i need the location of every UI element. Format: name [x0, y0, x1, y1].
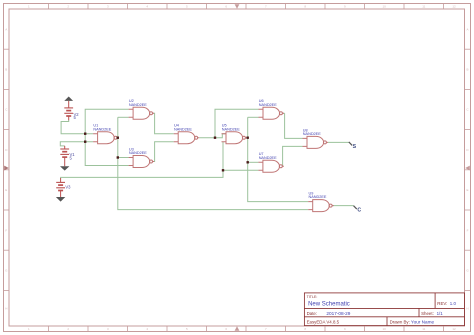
- svg-text:E: E: [466, 188, 468, 192]
- junction node at 118,158: [117, 156, 119, 158]
- svg-text:B: B: [466, 68, 468, 72]
- svg-text:10: 10: [383, 5, 387, 9]
- svg-text:H: H: [466, 306, 468, 310]
- junction node at 223,170: [222, 169, 224, 171]
- svg-text:Your Name: Your Name: [411, 320, 435, 325]
- svg-text:6: 6: [225, 327, 227, 331]
- net label C at U9 output: [354, 206, 362, 214]
- svg-text:F: F: [5, 228, 7, 232]
- junction node at 85,142: [84, 141, 86, 143]
- svg-text:1.0: 1.0: [450, 301, 457, 306]
- battery V3 (carry-in source): [56, 182, 71, 190]
- svg-text:1: 1: [28, 327, 30, 331]
- svg-text:G: G: [5, 269, 8, 273]
- wire U7 output to U8 input B: [283, 146, 303, 166]
- svg-text:Sheet:: Sheet:: [421, 311, 434, 316]
- svg-text:3: 3: [107, 5, 109, 9]
- svg-text:4: 4: [146, 5, 148, 9]
- svg-text:5: 5: [186, 327, 188, 331]
- svg-text:7: 7: [265, 327, 267, 331]
- svg-text:NAND2EE: NAND2EE: [259, 156, 277, 160]
- junction node at 248,162: [247, 161, 249, 163]
- svg-text:NAND2EE: NAND2EE: [222, 127, 240, 131]
- battery V2 bottom stub: [68, 116, 70, 120]
- nand gate U6: [259, 99, 285, 119]
- wire U3 output to U4 input B: [153, 142, 174, 162]
- wire U4 output up to U6 input A: [215, 109, 259, 137]
- nand gate U5: [222, 124, 248, 144]
- nand gate U1: [93, 124, 119, 144]
- power flag above V2: [64, 97, 73, 108]
- wire branch to U7 input A: [248, 161, 259, 163]
- svg-text:9: 9: [344, 5, 346, 9]
- wire V3 to U5 input B: [61, 142, 223, 179]
- net label S at U8 output: [349, 142, 357, 150]
- svg-text:12: 12: [452, 327, 456, 331]
- svg-text:6: 6: [225, 5, 227, 9]
- svg-text:11: 11: [422, 327, 425, 331]
- svg-text:11: 11: [422, 5, 425, 9]
- wire U6 output stub: [283, 112, 285, 114]
- svg-text:V3: V3: [65, 185, 71, 190]
- battery V1 (5V source): [60, 149, 75, 161]
- wire V1 to U1 input B: [60, 142, 93, 146]
- svg-text:Date:: Date:: [307, 311, 318, 316]
- nand gate U3: [129, 147, 155, 167]
- wire V2 to U1 input A: [61, 120, 93, 134]
- svg-text:9: 9: [344, 327, 346, 331]
- wire U5 output branch to U6 input B: [248, 116, 259, 118]
- wire U2 output to U4 input A: [153, 113, 174, 133]
- svg-text:2: 2: [67, 5, 69, 9]
- svg-text:8: 8: [304, 327, 306, 331]
- nand gate U2: [129, 99, 155, 119]
- title block: [304, 293, 464, 326]
- wire V3 net branch to U7 input B: [223, 169, 258, 171]
- wire U1 output to U2 input B: [118, 116, 129, 118]
- wire U5 output down to U9 input A: [248, 117, 309, 201]
- svg-text:NAND2EE: NAND2EE: [93, 127, 111, 131]
- battery V1 top stub: [64, 146, 66, 149]
- svg-text:1/1: 1/1: [437, 311, 444, 316]
- svg-text:NAND2EE: NAND2EE: [303, 132, 321, 136]
- svg-text:C: C: [357, 207, 361, 213]
- svg-text:NAND2EE: NAND2EE: [129, 103, 147, 107]
- junction node at 248,138: [247, 137, 249, 139]
- svg-text:A: A: [466, 27, 468, 31]
- svg-text:C: C: [5, 108, 8, 112]
- svg-text:D: D: [466, 148, 469, 152]
- svg-text:EasyEDA V4.8.5: EasyEDA V4.8.5: [307, 320, 340, 325]
- wire U6 output to U8 input A: [285, 113, 303, 138]
- svg-text:H: H: [5, 306, 7, 310]
- svg-text:S: S: [353, 144, 357, 150]
- svg-text:E: E: [5, 188, 7, 192]
- battery V3 top stub: [60, 178, 62, 182]
- svg-text:12: 12: [452, 5, 456, 9]
- svg-text:10: 10: [383, 327, 387, 331]
- svg-text:C: C: [466, 108, 469, 112]
- svg-text:REV:: REV:: [437, 301, 447, 306]
- wire branch to U3 input A: [118, 157, 129, 159]
- svg-text:B: B: [5, 68, 7, 72]
- svg-text:8: 8: [304, 5, 306, 9]
- svg-text:A: A: [5, 27, 7, 31]
- svg-text:7: 7: [265, 5, 267, 9]
- junction node at 118,138: [117, 137, 119, 139]
- wire U8 output to S: [328, 141, 349, 143]
- wire U9 output to C: [332, 205, 353, 207]
- svg-text:2: 2: [67, 327, 69, 331]
- svg-text:Drawn By:: Drawn By:: [390, 320, 410, 325]
- svg-text:D: D: [5, 148, 8, 152]
- ground arrow below V3: [56, 191, 65, 202]
- svg-text:2017-08-29: 2017-08-29: [326, 311, 350, 316]
- junction node at 215,138: [214, 137, 216, 139]
- nand gate U8: [303, 128, 329, 148]
- wire input bus riser to U2.A and U3.B: [85, 109, 128, 165]
- battery V2 (5V source): [64, 108, 79, 120]
- nand gate U4: [174, 124, 200, 144]
- nand gate U9: [308, 192, 334, 212]
- svg-text:5: 5: [186, 5, 188, 9]
- svg-text:3: 3: [107, 327, 109, 331]
- svg-text:G: G: [466, 269, 469, 273]
- svg-text:F: F: [467, 228, 469, 232]
- svg-text:NAND2EE: NAND2EE: [174, 127, 192, 131]
- svg-text:4: 4: [146, 327, 148, 331]
- wire U4 output to U5 input A: [199, 134, 226, 138]
- junction node at 85,134: [84, 133, 86, 135]
- svg-text:NAND2EE: NAND2EE: [309, 195, 327, 199]
- svg-text:NAND2EE: NAND2EE: [259, 103, 277, 107]
- svg-text:1: 1: [28, 5, 30, 9]
- nand gate U7: [258, 152, 284, 172]
- ground arrow below V1: [60, 157, 69, 171]
- svg-text:NAND2EE: NAND2EE: [129, 151, 147, 155]
- svg-text:TITLE:: TITLE:: [307, 295, 318, 299]
- wire U1 output down to U9 input B: [118, 117, 308, 209]
- svg-text:New Schematic: New Schematic: [308, 302, 350, 308]
